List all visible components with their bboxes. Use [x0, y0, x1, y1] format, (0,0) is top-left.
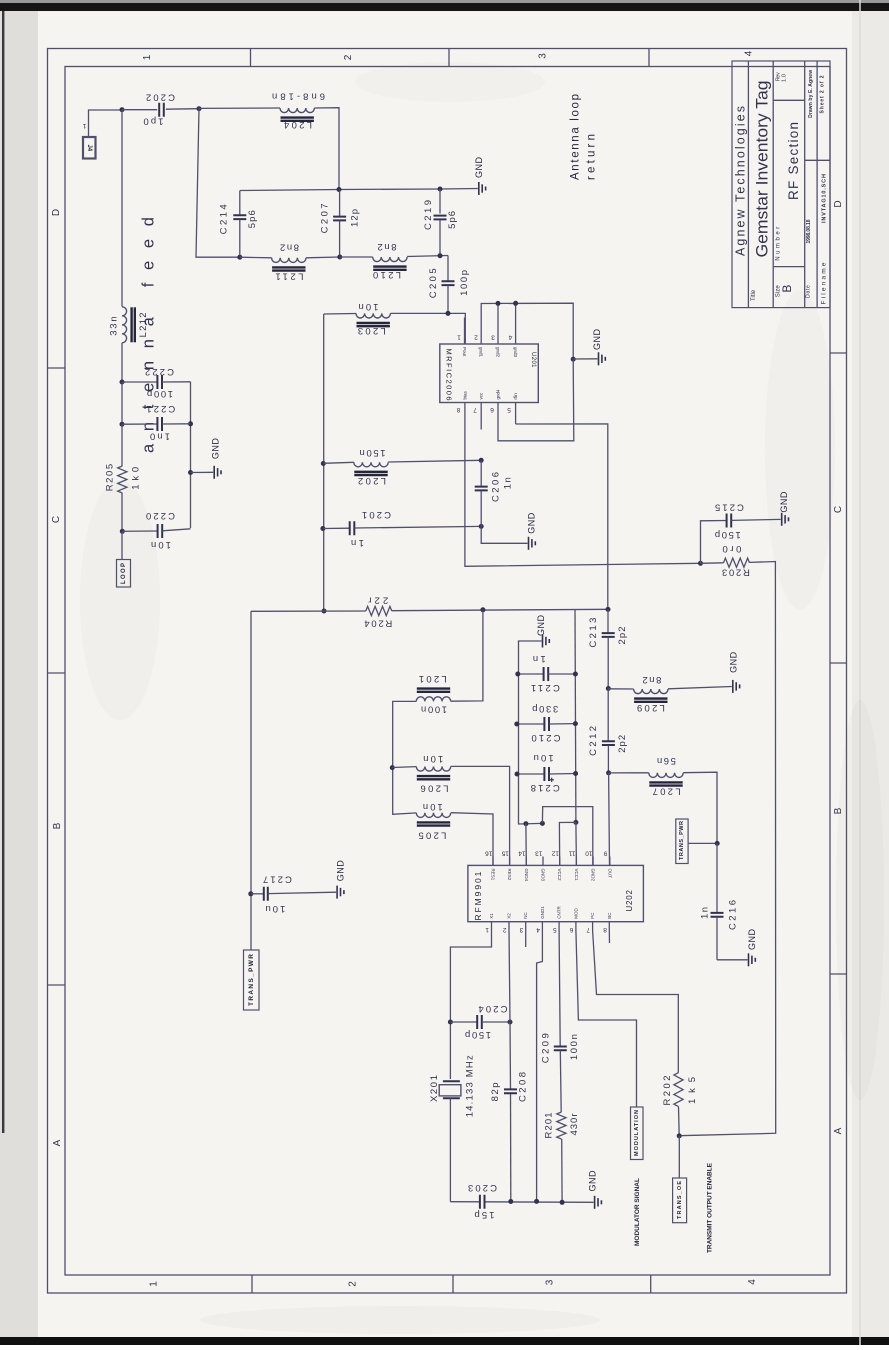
svg-text:Sheet 2 of 2: Sheet 2 of 2: [819, 75, 825, 113]
inductor L203 10n: [356, 301, 390, 336]
svg-text:1n: 1n: [503, 477, 514, 489]
svg-text:TRANS_OE: TRANS_OE: [677, 1181, 683, 1219]
junction TRANS_PWR tap: [715, 841, 720, 846]
svg-text:2p2: 2p2: [617, 627, 628, 645]
wire left rail gnd tap: [519, 641, 543, 824]
wire R201 to rail: [561, 1139, 563, 1202]
svg-text:RFM9901: RFM9901: [473, 871, 483, 920]
svg-text:GND: GND: [592, 329, 602, 351]
capacitor C208 82p: [490, 1072, 528, 1102]
wire pin12 to pin11: [559, 822, 576, 865]
svg-text:1n0: 1n0: [150, 431, 170, 442]
svg-text:100n: 100n: [421, 703, 447, 714]
svg-text:U202: U202: [625, 889, 634, 911]
svg-text:1k5: 1k5: [687, 1077, 698, 1104]
svg-text:3: 3: [491, 334, 495, 341]
inductor L210 8n2: [340, 241, 407, 280]
svg-text:10u: 10u: [265, 903, 285, 914]
svg-text:5p6: 5p6: [247, 210, 258, 228]
svg-text:B: B: [833, 807, 844, 814]
inductor L209 8n2: [608, 674, 668, 713]
svg-text:Filename: Filename: [821, 262, 828, 304]
wire pin11 stub: [575, 822, 578, 865]
connector J4: [82, 122, 95, 159]
capacitor C206 1n: [475, 460, 514, 526]
svg-text:16: 16: [485, 849, 493, 856]
svg-text:10: 10: [585, 849, 593, 856]
wire L202 to pin7: [388, 460, 481, 462]
svg-text:22r: 22r: [368, 595, 388, 606]
svg-text:3: 3: [538, 53, 549, 59]
junction pin11: [573, 820, 578, 825]
wire loop return rail: [250, 611, 252, 950]
wire pin6 MOD to MODULATION: [576, 931, 637, 1108]
svg-text:330p: 330p: [532, 703, 558, 714]
svg-text:gnd3: gnd3: [513, 347, 518, 358]
svg-text:GND: GND: [747, 929, 757, 951]
svg-text:U201: U201: [530, 352, 536, 368]
resistor R202 1k5: [662, 1073, 698, 1107]
svg-text:RES1: RES1: [491, 869, 496, 881]
svg-text:0r0: 0r0: [722, 543, 741, 554]
capacitor C213 2p2: [588, 609, 628, 688]
svg-text:2: 2: [348, 1281, 359, 1287]
svg-text:150n: 150n: [360, 447, 386, 458]
svg-text:10n: 10n: [359, 301, 379, 312]
resistor R201 430r: [543, 1112, 580, 1139]
svg-text:2: 2: [503, 926, 507, 933]
svg-text:D: D: [833, 200, 844, 207]
wire pin13 staple pin10: [542, 807, 592, 866]
label Antenna loop return: [570, 94, 598, 180]
junction C204 right: [508, 1020, 513, 1025]
svg-text:gnd1: gnd1: [479, 347, 484, 358]
svg-text:150p: 150p: [715, 529, 741, 540]
wire bottom rail: [450, 1201, 593, 1204]
resistor R203 0r0: [701, 543, 750, 578]
wire C216 to gnd: [717, 959, 748, 961]
inductor L204 6n8-18n: [272, 91, 325, 131]
capacitor C210 330p: [517, 703, 576, 743]
op-amp U201 MRFIC2006: [440, 318, 539, 430]
svg-text:2p2: 2p2: [617, 735, 628, 753]
svg-text:PC: PC: [590, 912, 595, 919]
capacitor C217 10u: [251, 874, 336, 914]
capacitor C222 100p: [122, 366, 191, 399]
junction R204 left rail: [322, 609, 327, 614]
wire crystal to rail: [449, 1098, 451, 1201]
port TRANS_PWR left: [244, 950, 260, 1010]
wire C206 to gnd: [481, 526, 527, 543]
inductor L205 10n: [416, 801, 450, 841]
svg-text:Antenna loop: Antenna loop: [570, 94, 582, 180]
svg-text:1: 1: [142, 54, 153, 60]
wire pin5 rfin to OUT column: [516, 424, 608, 609]
resistor R205 1k0: [105, 424, 142, 493]
capacitor C202 1p0: [144, 92, 176, 127]
ground C206: [527, 512, 537, 550]
svg-text:1: 1: [82, 122, 86, 129]
junction L207 tap: [606, 770, 611, 775]
svg-text:5p6: 5p6: [447, 211, 458, 229]
svg-text:rfin: rfin: [513, 393, 518, 400]
svg-text:1998.08.18: 1998.08.18: [806, 219, 812, 243]
svg-text:Pout: Pout: [462, 347, 467, 357]
svg-text:1n: 1n: [700, 907, 711, 919]
capacitor C204 150p: [450, 1003, 510, 1040]
inductor L202 150n: [323, 447, 388, 486]
svg-text:GND4: GND4: [524, 869, 529, 882]
svg-text:B: B: [52, 822, 63, 829]
port TRANS_OE: [673, 1178, 687, 1223]
ground caps cluster: [536, 615, 549, 648]
capacitor C201 1n: [323, 509, 481, 548]
wire pin7 PC to R202: [593, 931, 679, 1073]
inductor L201 100n: [416, 673, 450, 714]
capacitor C211 1n: [518, 653, 576, 693]
svg-text:GND: GND: [335, 860, 345, 882]
junction L206 left: [390, 765, 395, 770]
svg-text:VCC1: VCC1: [574, 869, 579, 882]
junction C207 bottom: [337, 255, 342, 260]
junction C221 left: [120, 422, 125, 427]
junction C204 left: [448, 1020, 453, 1025]
svg-text:INVTAG10.SCH: INVTAG10.SCH: [821, 174, 827, 223]
inductor L207 56n: [609, 755, 684, 797]
svg-text:GND: GND: [474, 157, 484, 179]
svg-text:TRANS_PWR: TRANS_PWR: [679, 821, 685, 860]
svg-text:GND: GND: [527, 512, 537, 534]
svg-text:C: C: [51, 516, 62, 523]
wire pin3 NC stub: [525, 931, 527, 948]
junction C219 top: [438, 187, 443, 192]
junction pin14: [523, 821, 528, 826]
svg-text:GND: GND: [588, 1170, 598, 1192]
svg-text:gnd2: gnd2: [496, 347, 501, 358]
svg-text:MODULATION: MODULATION: [634, 1110, 640, 1156]
junction OUT column top: [606, 607, 611, 612]
wire J4 to feed node: [89, 110, 123, 137]
wire right mini rail: [190, 382, 192, 528]
svg-text:J4: J4: [86, 144, 92, 151]
svg-text:3: 3: [545, 1279, 556, 1285]
wire right rail down: [574, 609, 577, 822]
capacitor C216 1n: [700, 843, 739, 959]
ground C216: [747, 929, 757, 967]
svg-text:100p: 100p: [459, 270, 470, 296]
svg-text:1: 1: [457, 334, 461, 341]
svg-text:Agnew Technologies: Agnew Technologies: [733, 106, 747, 256]
wire left rail C221: [121, 382, 123, 424]
svg-text:14.133 MHz: 14.133 MHz: [465, 1055, 476, 1117]
svg-text:9: 9: [603, 849, 607, 856]
junction L204 drop: [337, 187, 342, 192]
junction L202 left: [321, 461, 326, 466]
svg-text:11: 11: [568, 849, 575, 856]
svg-text:NC: NC: [523, 911, 528, 918]
svg-text:4: 4: [536, 926, 540, 933]
wire R202 to junction: [678, 1107, 681, 1136]
junction L209 tap: [606, 686, 611, 691]
junction pin13: [540, 821, 545, 826]
wire TRANS_PWR to junction: [688, 842, 717, 844]
svg-text:CNTR: CNTR: [557, 905, 562, 918]
svg-text:L212: L212: [138, 312, 149, 337]
junction R203 bias: [698, 561, 703, 566]
wire L201 right to R204 row: [451, 610, 483, 701]
svg-text:5: 5: [553, 926, 557, 933]
svg-text:R201: R201: [543, 1113, 554, 1139]
svg-text:8: 8: [456, 406, 460, 413]
svg-text:MODULATOR SIGNAL: MODULATOR SIGNAL: [634, 1178, 641, 1246]
wire junction to TRANS_OE: [678, 1136, 680, 1178]
ground U201: [573, 329, 605, 366]
title block: [732, 61, 830, 308]
wire junction to L204: [199, 107, 280, 109]
ground C217: [335, 860, 345, 899]
svg-text:1.0: 1.0: [782, 74, 788, 82]
junction C219 bottom: [438, 253, 443, 258]
svg-text:vcc: vcc: [479, 392, 484, 400]
wire R203 down long: [679, 562, 776, 1136]
svg-text:10n: 10n: [151, 539, 171, 550]
ground L209: [728, 651, 739, 693]
svg-text:4: 4: [744, 50, 755, 56]
crystal X201 14.133 MHz: [429, 1055, 476, 1117]
junction L201 top: [480, 607, 485, 612]
svg-text:5: 5: [507, 406, 511, 413]
svg-text:A: A: [833, 1127, 844, 1134]
capacitor C207 12p: [320, 190, 361, 258]
wire R205 to C220: [121, 493, 123, 531]
capacitor C209 100n: [541, 1033, 580, 1063]
svg-text:10n: 10n: [423, 753, 443, 764]
svg-text:Date: Date: [806, 285, 812, 298]
junction U201 gnd: [571, 357, 576, 362]
inductor L206 10n: [392, 753, 450, 794]
svg-text:2: 2: [474, 334, 478, 341]
svg-text:4: 4: [747, 1279, 758, 1285]
svg-text:B: B: [780, 285, 794, 293]
svg-text:6: 6: [569, 926, 573, 933]
wire left rail: [323, 314, 325, 611]
wire L211 to C207: [306, 256, 340, 259]
svg-text:RF Section: RF Section: [786, 122, 801, 200]
wire C220 to LOOP: [121, 531, 123, 559]
junction C221 right: [188, 421, 193, 426]
svg-text:8n2: 8n2: [280, 242, 299, 253]
svg-text:bias: bias: [462, 390, 467, 399]
svg-text:150p: 150p: [465, 1029, 491, 1040]
wire feed down: [121, 110, 123, 307]
svg-text:GND2: GND2: [591, 869, 596, 882]
svg-text:8n2: 8n2: [642, 674, 661, 685]
svg-text:Title: Title: [751, 289, 757, 301]
junction C217 row: [248, 891, 253, 896]
capacitor C215 150p: [701, 501, 781, 563]
wire R204 row: [251, 610, 366, 612]
svg-text:OUT: OUT: [607, 869, 612, 879]
junction after C202: [197, 106, 202, 111]
capacitor C219 5p6: [423, 189, 458, 256]
svg-text:GND: GND: [779, 491, 789, 513]
svg-text:12p: 12p: [350, 209, 361, 227]
svg-text:8: 8: [603, 926, 607, 933]
svg-text:LOOP: LOOP: [121, 563, 127, 584]
svg-text:100n: 100n: [569, 1034, 580, 1060]
wire pin2 X2 column: [509, 931, 510, 1023]
junction C205 bottom: [446, 311, 451, 316]
svg-text:Rev: Rev: [775, 72, 781, 81]
wire pin14: [525, 824, 527, 866]
wire OUT column to pin9: [608, 773, 611, 866]
wire gnd to pin6: [498, 359, 574, 441]
svg-text:100p: 100p: [147, 388, 173, 399]
svg-text:GND: GND: [536, 615, 546, 637]
svg-text:Gemstar Inventory Tag: Gemstar Inventory Tag: [754, 81, 772, 258]
svg-text:Drawn by E. Agnew: Drawn by E. Agnew: [808, 70, 814, 118]
resistor R204 22r: [364, 595, 392, 629]
IC U202 RFM9901: [468, 849, 644, 933]
wire pin8 BC stub: [608, 931, 610, 944]
wire C209 to R201: [559, 1051, 562, 1112]
port TRANS_PWR right: [676, 819, 688, 864]
svg-text:430r: 430r: [569, 1114, 580, 1136]
wire C202 branch down: [196, 109, 238, 258]
svg-text:7: 7: [586, 926, 590, 933]
wire left rail top corner: [324, 313, 356, 316]
wire pin4 GND1: [537, 931, 543, 1202]
svg-text:10u: 10u: [534, 752, 554, 763]
junction C201 right pin7 line: [479, 524, 484, 529]
junction C214 bottom: [237, 255, 242, 260]
svg-text:GND3: GND3: [541, 869, 546, 882]
ground top bus: [474, 157, 486, 196]
wire L206 to pin15: [451, 766, 510, 865]
svg-text:X1: X1: [489, 913, 494, 919]
junction C201 left: [320, 526, 325, 531]
svg-text:A: A: [52, 1139, 63, 1146]
inductor L212 33n: [109, 307, 150, 343]
svg-text:X2: X2: [507, 913, 512, 919]
svg-text:return: return: [586, 134, 598, 180]
svg-text:TRANS_PWR: TRANS_PWR: [248, 954, 255, 1006]
svg-text:GND1: GND1: [540, 906, 545, 919]
wire L204 to C-bus: [314, 108, 339, 190]
port MODULATION: [631, 1107, 644, 1160]
capacitor C221 1n0: [122, 403, 191, 442]
svg-text:MRFIC2006: MRFIC2006: [444, 349, 453, 401]
capacitor C205 100p: [428, 256, 470, 314]
capacitor C203 15p: [468, 1182, 497, 1220]
capacitor C214 5p6: [219, 191, 258, 258]
svg-text:3: 3: [519, 926, 523, 933]
junction TRANS_OE: [677, 1133, 682, 1138]
svg-text:gnd4: gnd4: [496, 389, 501, 400]
wire pin5 CNTR: [559, 931, 560, 1047]
svg-text:10n: 10n: [423, 801, 443, 812]
svg-text:1: 1: [485, 926, 489, 933]
svg-text:15p: 15p: [475, 1209, 495, 1220]
wire pin1 X1 to crystal: [450, 931, 491, 1080]
capacitor C220 10n: [122, 510, 191, 550]
svg-text:4: 4: [508, 334, 512, 341]
svg-text:33n: 33n: [109, 316, 120, 336]
ground C215: [779, 491, 789, 526]
wire L201 left: [393, 701, 417, 814]
wire feed to C202: [122, 109, 157, 111]
svg-text:VCC2: VCC2: [557, 869, 562, 882]
port LOOP: [117, 560, 131, 588]
svg-text:BC: BC: [607, 912, 612, 919]
svg-text:1: 1: [149, 1281, 160, 1287]
junction pin4 bus: [513, 301, 518, 306]
wire L203 to U201 pin1: [390, 313, 465, 344]
junction feed node: [120, 107, 125, 112]
svg-text:C: C: [833, 506, 844, 513]
svg-text:1p0: 1p0: [144, 115, 164, 126]
svg-text:8n2: 8n2: [378, 241, 397, 252]
junction GND tap mini rail: [188, 470, 193, 475]
junction C220 left: [120, 529, 125, 534]
svg-text:56n: 56n: [657, 755, 676, 766]
svg-text:1k0: 1k0: [131, 467, 142, 490]
svg-text:2: 2: [343, 54, 354, 60]
wire L209 to gnd: [668, 687, 732, 689]
junction pin7 vcc: [479, 458, 484, 463]
svg-text:GND: GND: [211, 438, 221, 460]
wire L210 to C219: [407, 256, 448, 257]
svg-text:RES2: RES2: [507, 869, 512, 881]
svg-text:12: 12: [551, 849, 559, 856]
wire top bus y190: [240, 189, 478, 191]
svg-text:MOD: MOD: [573, 907, 578, 918]
svg-text:6: 6: [490, 406, 494, 413]
svg-text:TRANSMIT OUTPUT ENABLE: TRANSMIT OUTPUT ENABLE: [706, 1162, 713, 1253]
wire U201 pins2-4 bus: [481, 303, 573, 359]
svg-text:7: 7: [473, 406, 477, 413]
svg-text:13: 13: [535, 849, 543, 856]
wire pin8 bias: [465, 430, 701, 567]
svg-text:GND: GND: [728, 651, 738, 673]
svg-text:14: 14: [518, 849, 526, 856]
junction C222 left: [120, 380, 125, 385]
inductor L211 8n2: [240, 242, 306, 282]
wire L205 to pin16: [451, 813, 493, 866]
capacitor C218 10u polarized: [517, 752, 576, 793]
wire L207 to C216: [683, 772, 717, 843]
svg-text:15: 15: [501, 849, 509, 856]
wire L212 to C222 row: [121, 343, 123, 382]
svg-text:82p: 82p: [490, 1082, 501, 1101]
wire C202 to junction: [166, 108, 199, 111]
svg-text:D: D: [51, 209, 62, 216]
capacitor C212 2p2: [588, 689, 628, 773]
ground bottom rail: [588, 1170, 602, 1209]
ground R205 area: [191, 438, 222, 479]
junction pin3 bus: [496, 301, 501, 306]
